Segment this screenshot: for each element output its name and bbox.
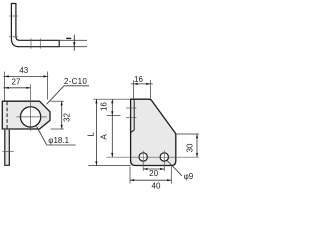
hole phi18.1 circle	[20, 107, 40, 127]
2-C10 leader diagonal	[47, 86, 65, 105]
dim 43 arrow left	[5, 75, 9, 77]
dim 16 top extension left	[133, 80, 135, 98]
dim 16 left arrow top	[111, 99, 113, 103]
strip hole centerline tick	[2, 150, 13, 152]
thickness dim extension line top	[59, 39, 87, 41]
phi9 leader diagonal	[167, 161, 182, 176]
bottom extension line for L	[88, 165, 130, 167]
2-C10 leader underline	[64, 85, 89, 87]
svg-text:40: 40	[152, 181, 161, 190]
dim 16 left line	[111, 99, 113, 115]
dim 16 left arrow bottom	[111, 111, 113, 115]
dim 30 extension top	[176, 133, 199, 135]
dim 27 arrow left	[5, 87, 9, 89]
svg-text:L: L	[86, 132, 95, 137]
dim L arrow top	[95, 99, 97, 103]
dim 16 top extension right	[149, 80, 151, 98]
svg-text:16: 16	[134, 75, 143, 84]
mid tick extension for 16/A	[107, 115, 121, 117]
side view left edge tick lower	[126, 117, 136, 119]
dim 43 extension line right	[47, 72, 49, 100]
svg-text:27: 27	[12, 78, 21, 87]
top edge extension line for L and 16	[93, 98, 130, 100]
dim 20 arrow left	[143, 168, 147, 170]
front view plate	[2, 101, 50, 129]
profile horizontal-leg tick left	[30, 38, 32, 48]
dim 27 arrow right	[26, 87, 30, 89]
phi18.1 leader diagonal	[37, 126, 47, 145]
profile vertical-leg tick lower	[9, 36, 18, 38]
svg-text:16: 16	[99, 102, 108, 111]
dim 16 top line	[131, 83, 153, 85]
dim 16 top arrow left	[134, 83, 138, 85]
dim 40 extension right	[170, 167, 172, 184]
dim 40 line	[130, 179, 171, 181]
side view plate outline	[131, 99, 176, 165]
side view inner edge line	[131, 100, 134, 133]
thickness dim extension line bottom	[59, 46, 87, 48]
svg-text:32: 32	[63, 113, 72, 122]
dim 40 arrow right	[167, 179, 171, 181]
phi18.1 leader underline	[47, 144, 76, 146]
dim 30 arrow bottom	[196, 153, 198, 157]
dim L line	[95, 99, 97, 165]
dim 30 line	[196, 134, 198, 157]
svg-text:30: 30	[186, 143, 195, 152]
dim 20 arrow right	[160, 168, 164, 170]
holes horizontal centerline	[107, 156, 200, 158]
dim L arrow bottom	[95, 161, 97, 165]
hole left vertical tick	[142, 151, 144, 171]
hole right vertical tick	[163, 151, 165, 171]
svg-text:2-C10: 2-C10	[64, 77, 87, 86]
dim 32 extension top	[51, 100, 64, 102]
dim 40 arrow left	[130, 179, 134, 181]
profile view L-shape outline	[11, 4, 59, 47]
dim 32 extension bottom	[51, 128, 64, 130]
dim 16 top arrow right	[146, 83, 150, 85]
dim 32 line	[61, 101, 63, 129]
dim A arrow bottom	[111, 153, 113, 157]
dim 20 line	[143, 168, 164, 170]
hole phi9 left	[139, 153, 147, 161]
dim 27 line	[3, 87, 30, 89]
hole horizontal centerline	[17, 116, 48, 118]
thickness dim line vertical	[73, 35, 75, 51]
thickness dim dash mark	[66, 38, 71, 39]
thickness dim arrow down	[73, 42, 75, 46]
svg-text:φ9: φ9	[184, 172, 194, 181]
hole vertical centerline front view	[30, 84, 32, 131]
side view left edge tick upper	[126, 107, 136, 109]
front view flange strip	[5, 130, 10, 166]
dim 43 arrow right	[43, 75, 47, 77]
svg-text:20: 20	[149, 169, 158, 178]
dim 43 line	[3, 75, 48, 77]
profile vertical-leg tick upper	[9, 15, 18, 17]
svg-text:A: A	[99, 134, 108, 140]
dim 43 extension line left	[4, 72, 6, 101]
front view bend line dashed	[6, 102, 8, 129]
svg-text:43: 43	[19, 66, 28, 75]
dim 40 extension left	[129, 167, 131, 184]
dim 32 arrow top	[61, 101, 63, 105]
dim A line	[111, 116, 113, 158]
dim 32 arrow bottom	[61, 125, 63, 129]
dim 30 arrow top	[196, 134, 198, 138]
profile horizontal-leg tick right	[39, 38, 41, 48]
svg-text:φ18.1: φ18.1	[48, 136, 69, 145]
hole phi9 right	[160, 153, 168, 161]
